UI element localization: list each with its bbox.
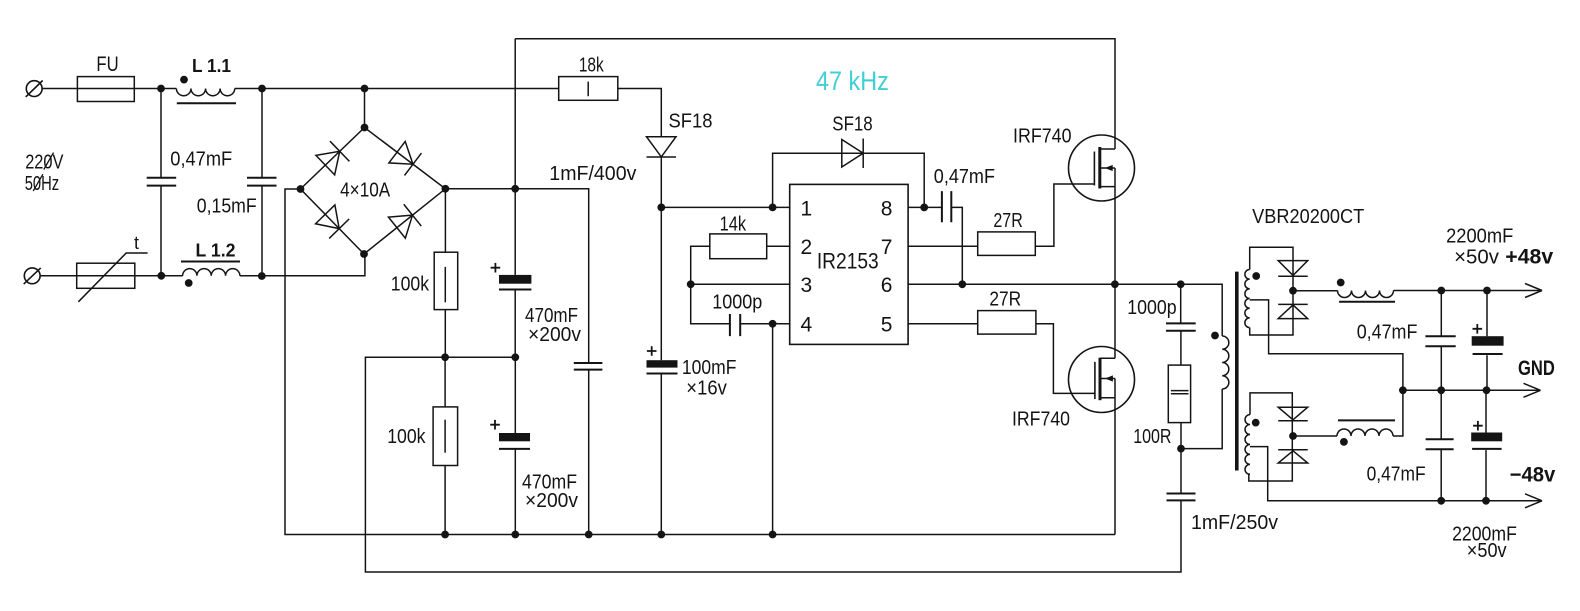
terminal input L: [26, 81, 43, 97]
wire secondary top: outer end to diode D1 and junction: [1250, 247, 1293, 290]
arrow -48v output: [1525, 494, 1542, 508]
svg-text:IRF740: IRF740: [1013, 124, 1072, 147]
capacitor 0,47mF output bottom: [1426, 439, 1454, 449]
wire 0,15mF input column: [261, 89, 263, 277]
wire secondary top: center tap to GND: [1250, 300, 1403, 390]
wire secondary top: lower end to diode D2 anode: [1250, 291, 1293, 335]
wire DC plus: bridge right vertex to 1mF/400v column: [445, 189, 588, 363]
svg-text:FU: FU: [96, 53, 118, 76]
svg-text:100R: 100R: [1133, 425, 1171, 448]
wire bottom MOSFET source to DC minus rail: [1114, 379, 1116, 535]
svg-text:14k: 14k: [720, 213, 747, 236]
svg-text:VBR20200CT: VBR20200CT: [1252, 205, 1365, 228]
svg-text:2: 2: [801, 236, 813, 259]
wire L1.1 to 18k left: [235, 88, 559, 90]
capacitor 1mF/400v: [574, 363, 603, 370]
svg-text:0,47mF: 0,47mF: [170, 147, 232, 170]
svg-text:27R: 27R: [993, 209, 1022, 232]
wire L1.2 to bridge bottom vertex: [240, 254, 365, 276]
capacitor 2200mF top polarized: [1472, 324, 1504, 354]
svg-text:+48v: +48v: [1505, 245, 1553, 268]
diode VBR D1: [1278, 261, 1308, 277]
svg-text:SF18: SF18: [669, 110, 713, 133]
capacitor 470mF x200v C1 polarized: [491, 263, 532, 290]
wire 14k left down to 1000p left: [691, 246, 730, 323]
wire capacitor midpoint line and return to 1mF/250v: [365, 357, 1181, 572]
svg-text:18k: 18k: [579, 53, 604, 76]
resistor 100R: [1168, 365, 1190, 423]
svg-text:0,47mF: 0,47mF: [934, 165, 995, 188]
wire snubber 1000p to 100R: [1180, 331, 1182, 365]
wire 100k R1 top: [444, 189, 446, 252]
wire 1000p right to IC pin 4: [740, 323, 790, 325]
svg-text:t: t: [134, 233, 139, 253]
wire choke to +48v rail: [1393, 290, 1541, 292]
wire IC pin 8 to 0,47mF: [908, 206, 942, 208]
phase dot secondary bottom: [1252, 419, 1260, 427]
svg-text:100k: 100k: [387, 425, 426, 448]
inductor L1.2: [181, 262, 240, 276]
wire pin4 COM column down to DC minus rail: [772, 324, 774, 535]
wire DC minus bus: bridge left vertex down and along to bottom MOSFET source: [285, 189, 1115, 535]
svg-text:1mF/250v: 1mF/250v: [1191, 511, 1279, 534]
wire bottom choke to GND node: [1393, 390, 1403, 436]
svg-text:47 kHz: 47 kHz: [816, 66, 889, 96]
wire 27R bottom to gate of bottom IRF740: [1036, 324, 1095, 394]
svg-text:×50v: ×50v: [1454, 245, 1500, 268]
wire output cap 2200mF bottom column: [1485, 390, 1487, 501]
bridge diode bottom-left: [315, 205, 349, 239]
terminal input N: [24, 268, 41, 284]
wire IC pin 2 to 14k: [767, 245, 790, 247]
choke output top: [1338, 291, 1396, 302]
capacitor 100mF x16v polarized: [647, 346, 678, 373]
IC IR2153 U1: [790, 184, 908, 344]
wire SF18 bootstrap loop pin1 to pin8: [773, 153, 925, 207]
wire 470mF cap1 bottom to midpoint line: [514, 291, 516, 358]
transistor IRF740 Q2 bottom: [1069, 347, 1135, 413]
phase dot L1.2: [185, 279, 193, 287]
wire half-bridge midpoint rail pin6 to transformer primary: [908, 284, 1222, 336]
svg-text:IR2153: IR2153: [817, 248, 879, 273]
fuse FU: [77, 77, 134, 102]
thermistor t: [77, 253, 148, 302]
svg-text:4×10A: 4×10A: [340, 180, 391, 202]
svg-text:100k: 100k: [391, 273, 430, 296]
svg-text:L 1.1: L 1.1: [192, 55, 231, 76]
resistor 14k: [710, 234, 767, 259]
wire IC pin 7 to 27R top: [908, 245, 978, 247]
phase dot L1.1: [180, 76, 188, 84]
wire 515 column: top rail over to DC plus and 470mF cap1: [514, 39, 516, 275]
resistor 100k R2: [433, 407, 458, 466]
wire 0,47mF to pin6 node bootstrap return: [951, 207, 962, 284]
slash in 0 of 220V: [44, 153, 54, 170]
wire 18k right corner down to SF18: [618, 89, 662, 137]
wire bridge top vertex to AC rail: [364, 89, 366, 128]
bridge diode bottom-right: [388, 204, 421, 238]
capacitor 0,47mF bootstrap: [942, 191, 951, 222]
wire fuse to L1.1: [134, 88, 176, 90]
svg-text:2200mF: 2200mF: [1446, 225, 1513, 248]
wire GND rail: [1403, 389, 1540, 391]
transformer primary winding: [1222, 336, 1229, 389]
svg-text:6: 6: [881, 274, 893, 297]
capacitor 0,47mF output top: [1425, 336, 1455, 346]
wire output cap 0,47mF bottom column: [1440, 390, 1442, 501]
diode VBR D3: [1278, 407, 1308, 421]
wire 100k R2 top: [444, 357, 446, 407]
wire thermistor to L1.2: [135, 275, 183, 277]
transformer secondary bottom winding: [1245, 415, 1250, 475]
wire output cap 0,47mF top column: [1440, 291, 1442, 391]
resistor 27R bottom: [978, 311, 1036, 335]
wire output cap 2200mF top column: [1486, 291, 1488, 391]
diode VBR D2: [1278, 304, 1308, 318]
wire secondary bottom: center tap to -48v rail: [1250, 447, 1541, 501]
svg-text:×50v: ×50v: [1467, 539, 1507, 562]
phase dot choke bottom: [1340, 438, 1348, 446]
capacitor 470mF x200v C2 polarized: [490, 420, 530, 449]
svg-text:×200v: ×200v: [525, 489, 579, 512]
wire IC pin 5 to 27R bottom: [908, 323, 978, 325]
wire secondary bottom: outer end to diode D3 and junction: [1250, 393, 1292, 436]
svg-text:−48v: −48v: [1510, 464, 1556, 487]
diode bridge 4x10A diamond: [301, 128, 446, 255]
capacitor 1000p snubber: [1166, 323, 1196, 330]
svg-text:×200v: ×200v: [528, 323, 582, 346]
svg-text:8: 8: [881, 198, 893, 221]
arrow +48v output: [1525, 284, 1542, 298]
choke output bottom: [1337, 420, 1395, 436]
wire top rail terminal to fuse: [42, 88, 77, 90]
svg-text:7: 7: [881, 236, 893, 259]
wire rectifier top junction to choke: [1293, 290, 1338, 292]
wire 27R top to gate of top IRF740: [1035, 184, 1094, 246]
diode SF18 startup: [647, 137, 677, 157]
wire bottom rail terminal to thermistor: [40, 275, 77, 277]
phase dot primary: [1211, 332, 1219, 340]
resistor 100k R1: [434, 252, 458, 309]
wire 100mF bottom to DC minus rail: [660, 374, 662, 535]
transformer core: [1235, 272, 1239, 471]
wire secondary bottom: lower end to diode D4 anode: [1249, 436, 1293, 481]
svg-text:1: 1: [801, 198, 813, 221]
resistor 18k: [559, 77, 618, 101]
svg-text:1000p: 1000p: [1127, 296, 1176, 319]
wire 100R bottom to 1mF/250v: [1180, 423, 1182, 494]
capacitor 0,15mF: [247, 178, 277, 186]
capacitor 0,47mF input: [147, 178, 177, 186]
phase dot secondary top: [1252, 272, 1260, 280]
wire 0,47mF input column: [160, 89, 162, 276]
diode VBR D4: [1278, 450, 1308, 463]
wire SF18 cathode down to Vcc node and 100mF cap: [660, 157, 662, 360]
svg-text:1mF/400v: 1mF/400v: [549, 162, 637, 185]
wire IC pin 3: [691, 283, 790, 285]
capacitor 1000p timing: [730, 314, 740, 336]
resistor 27R top: [978, 232, 1036, 256]
inductor L1.1: [176, 89, 236, 104]
wire midpoint node to bottom MOSFET drain: [1114, 284, 1116, 358]
transformer secondary top winding: [1245, 270, 1250, 328]
bridge diode top-right: [389, 141, 422, 175]
wire Vcc node to IC pin 1: [661, 206, 789, 208]
svg-text:5: 5: [881, 314, 893, 337]
arrow GND output: [1524, 383, 1541, 397]
capacitor 1mF/250v: [1167, 494, 1196, 501]
svg-text:4: 4: [801, 314, 813, 337]
svg-text:0,47mF: 0,47mF: [1367, 463, 1426, 486]
diode SF18 bootstrap: [842, 139, 863, 169]
phase dot choke top: [1337, 279, 1345, 287]
wire 100k R1 bottom: [444, 310, 446, 358]
svg-text:1000p: 1000p: [712, 291, 762, 314]
wire primary bottom lead to 100R node: [1181, 389, 1222, 449]
wire 1mF/400v bottom to DC minus rail: [588, 370, 590, 535]
wire snubber 1000p top: [1180, 284, 1182, 323]
svg-text:0,15mF: 0,15mF: [197, 195, 257, 218]
wire top MOSFET source to midpoint node: [1114, 168, 1116, 284]
svg-text:IRF740: IRF740: [1012, 408, 1070, 431]
wire 100k R2 bottom: [444, 466, 446, 535]
wire 470mF cap2 bottom: [514, 449, 516, 535]
svg-text:×16v: ×16v: [686, 377, 727, 400]
wire 470mF cap2 top: [514, 357, 516, 433]
wire rectifier bottom junction to choke: [1293, 435, 1337, 437]
wire top rail of half-bridge: [515, 39, 1115, 149]
bridge diode top-left: [316, 141, 350, 175]
svg-text:L 1.2: L 1.2: [196, 239, 236, 260]
transistor IRF740 Q1 top: [1069, 135, 1135, 201]
svg-text:3: 3: [801, 274, 813, 297]
svg-text:220V: 220V: [25, 151, 64, 174]
svg-text:0,47mF: 0,47mF: [1357, 321, 1418, 344]
svg-text:GND: GND: [1518, 357, 1555, 380]
svg-text:27R: 27R: [989, 288, 1021, 311]
slash in 0 of 50Hz: [33, 174, 43, 191]
capacitor 2200mF bottom polarized: [1471, 421, 1502, 449]
svg-text:SF18: SF18: [832, 112, 872, 135]
